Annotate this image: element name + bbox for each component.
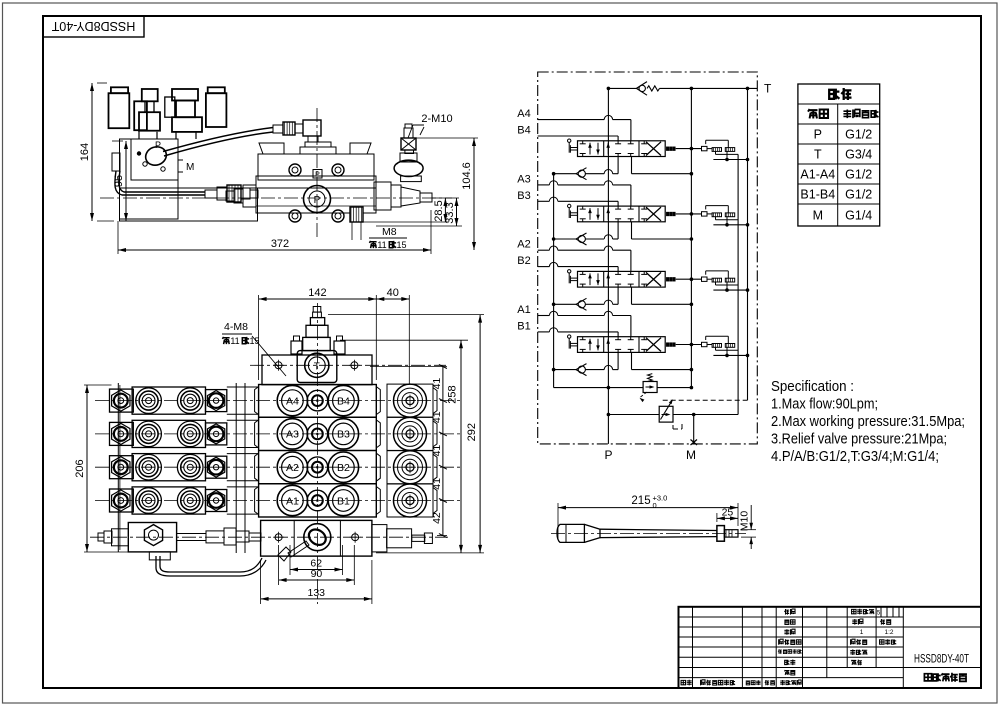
title block tiny chinese labels [784, 609, 789, 615]
valve 4/3 4 body [578, 141, 666, 157]
center bottom block [261, 520, 372, 556]
svg-text:B1: B1 [517, 320, 530, 332]
svg-text:41: 41 [431, 478, 443, 490]
left long plate verticals [117, 383, 119, 552]
dim 104.6 [416, 137, 478, 139]
valve internals 3 [589, 208, 591, 220]
svg-text:15: 15 [249, 336, 259, 346]
joystick X box [401, 138, 416, 150]
centerline side view [100, 197, 462, 199]
svg-text:A1-A4: A1-A4 [800, 168, 835, 182]
svg-text:B2: B2 [337, 462, 350, 474]
svg-text:3.Relief valve pressure:21Mpa;: 3.Relief valve pressure:21Mpa; [771, 431, 947, 448]
relief drain bus [737, 154, 739, 414]
valve internals 2 [589, 273, 591, 285]
P square mark [313, 170, 322, 179]
M plug X mark [691, 440, 698, 446]
svg-text:B3: B3 [517, 190, 530, 202]
header row: port (jie kou) / thread spec (luo wen gui ge) [808, 109, 817, 118]
svg-text:41: 41 [431, 411, 443, 423]
check valve 3 [613, 238, 619, 240]
lever knob [557, 524, 584, 542]
relief cluster 4 [702, 146, 708, 150]
part name: 4-spool multi-way valve (si lian duo lu fa) [924, 674, 931, 681]
valve to T wire 3 [676, 213, 702, 215]
lever actuator 2 [568, 270, 571, 273]
svg-text:206: 206 [74, 459, 86, 477]
dim 372 [117, 221, 119, 254]
port size table grid [798, 84, 880, 226]
svg-text:M10: M10 [739, 511, 751, 532]
dim 142 / 40 [258, 295, 260, 380]
svg-text:11: 11 [377, 240, 386, 250]
svg-text:M: M [186, 162, 194, 173]
section B2 work line [538, 266, 550, 268]
svg-text:A3: A3 [286, 429, 299, 441]
dim 206 [84, 384, 112, 386]
svg-text:2.Max working pressure:31.5Mpa: 2.Max working pressure:31.5Mpa; [771, 413, 965, 430]
svg-text:G3/4: G3/4 [845, 148, 872, 162]
dim 292 [328, 314, 484, 316]
dim 258 [340, 339, 468, 341]
work ports down 4 [617, 157, 619, 174]
svg-text:G1/2: G1/2 [845, 128, 872, 142]
spring cap 4 [667, 147, 669, 150]
title block columns [692, 607, 694, 688]
schematic dash-dot border [538, 72, 758, 444]
svg-text:41: 41 [431, 445, 443, 457]
svg-text:G1/4: G1/4 [845, 209, 872, 223]
small cells top right [880, 607, 882, 617]
lever actuator 1 [568, 335, 571, 338]
T return bus [690, 88, 692, 387]
top relief-check wire to T [608, 87, 637, 89]
svg-text:142: 142 [308, 287, 326, 299]
svg-text:1.Max flow:90Lpm;: 1.Max flow:90Lpm; [771, 396, 878, 413]
valve internals 4 [589, 143, 591, 155]
svg-text:Specification :: Specification : [771, 378, 854, 395]
table header: valve-body (fa ti) [829, 89, 839, 100]
svg-text:292: 292 [466, 423, 478, 441]
hose lower (pipe from module to valve) [115, 171, 205, 195]
svg-text:G1/2: G1/2 [845, 188, 872, 202]
svg-text:B2: B2 [517, 255, 530, 267]
relief cluster 2 [702, 277, 708, 281]
body side ears [255, 387, 259, 415]
left valve fittings [243, 185, 256, 207]
left collector line [553, 174, 555, 388]
side view left cover module [120, 139, 179, 219]
work ports down 3 [617, 222, 619, 239]
lever centerline [551, 532, 746, 534]
svg-text:4.P/A/B:G1/2,T:G3/4;M:G1/4;: 4.P/A/B:G1/2,T:G3/4;M:G1/4; [771, 448, 939, 465]
dim 28.5 33.3 [432, 197, 452, 199]
svg-text:2-M10: 2-M10 [421, 113, 452, 125]
svg-text:A4: A4 [517, 108, 530, 120]
svg-text:B3: B3 [337, 429, 350, 441]
svg-text:25: 25 [722, 506, 734, 518]
spring cap 2 [667, 278, 669, 281]
P supply bus [607, 88, 609, 444]
pilot drain dashed [663, 399, 748, 401]
ball joint assembly [394, 160, 423, 176]
solenoid valve cluster [111, 87, 128, 93]
pilot relief valve [608, 414, 659, 416]
relief cluster 3 [702, 212, 708, 216]
svg-text:A3: A3 [517, 173, 530, 185]
left attachment block rows [132, 387, 205, 414]
bottom unload wire [554, 387, 644, 389]
dim M10 [741, 529, 756, 531]
section A4 work line [538, 119, 605, 121]
dim 41x4 + 42 [370, 366, 447, 368]
M8 plug label [351, 222, 353, 240]
bottom plate assembly [128, 523, 176, 552]
cap bolt crosses [275, 362, 282, 369]
valve 4/3 1 body [578, 337, 666, 353]
dim 62 90 133 [289, 545, 291, 575]
svg-text:42: 42 [431, 512, 443, 524]
svg-text:372: 372 [271, 238, 289, 250]
section A3 work line [538, 184, 550, 186]
right pane tiny labels [852, 609, 856, 613]
hex nut [144, 525, 162, 546]
right adapters cone [374, 182, 391, 210]
title block outer [679, 607, 982, 688]
svg-text:P: P [315, 172, 320, 179]
right port flanges [387, 384, 433, 417]
svg-text:T: T [314, 361, 320, 372]
M drain line [693, 415, 695, 444]
svg-text:104.6: 104.6 [461, 162, 473, 190]
title block rows left [679, 616, 904, 618]
check valve 4 [613, 173, 619, 175]
svg-text:258: 258 [447, 385, 459, 403]
valve top flange stack [305, 142, 331, 147]
section A1 work line [538, 315, 550, 317]
top cap block [262, 355, 372, 385]
svg-text:M: M [686, 448, 696, 462]
section A2 work line [538, 249, 550, 251]
right bottom fittings [372, 525, 387, 552]
work ports down 2 [617, 287, 619, 304]
lever shaft [600, 529, 717, 530]
svg-text:A4: A4 [286, 395, 299, 407]
svg-text:B1-B4: B1-B4 [800, 188, 835, 202]
upper hose from pilot to elbow [163, 128, 273, 152]
svg-text:P: P [604, 448, 612, 462]
svg-text:HSSD8DY-40T: HSSD8DY-40T [914, 654, 969, 666]
svg-text:G1/2: G1/2 [845, 168, 872, 182]
main valve body (side) [258, 154, 374, 180]
svg-text:164: 164 [79, 143, 91, 161]
svg-text:B4: B4 [517, 125, 530, 137]
upper hose fitting & elbow [273, 125, 283, 133]
work port circles with labels [277, 385, 307, 415]
check valve 1 [613, 369, 619, 371]
dim 215 [557, 503, 559, 540]
dim 95 [112, 140, 123, 142]
section B1 work line [538, 331, 550, 333]
lever actuator 4 [568, 139, 571, 142]
svg-text:133: 133 [307, 587, 325, 599]
valve 4/3 2 body [578, 271, 666, 287]
svg-text:95: 95 [113, 175, 125, 187]
svg-text:M8: M8 [382, 226, 397, 238]
valve internals 1 [589, 339, 591, 351]
pilot P circle on module [143, 144, 169, 168]
relief outlet to M [673, 414, 738, 416]
lever actuator 3 [568, 204, 571, 207]
dim 25 [716, 513, 718, 522]
svg-text:B4: B4 [337, 395, 350, 407]
spring cap 3 [667, 212, 669, 215]
svg-text:40: 40 [387, 287, 399, 299]
svg-text:0: 0 [653, 501, 657, 510]
section B3 work line [538, 200, 550, 202]
svg-text:P: P [155, 140, 161, 150]
main body outline [259, 385, 377, 518]
front view centerlines [316, 303, 318, 604]
svg-text:A1: A1 [286, 495, 299, 507]
dim 164 [97, 82, 107, 84]
cap side nuts [291, 341, 302, 354]
top stem pyramid [313, 307, 321, 313]
check valve 2 [613, 303, 619, 305]
svg-text:A1: A1 [517, 304, 530, 316]
drawing number label box (rotated) [43, 16, 144, 37]
valve to T wire 4 [676, 148, 702, 150]
lever taper [584, 524, 600, 542]
svg-text:1: 1 [860, 629, 864, 636]
bottom connecting pipe [177, 533, 206, 535]
T port circle [305, 353, 329, 377]
direct relief valve [643, 382, 657, 393]
bottom hose [160, 556, 262, 572]
svg-text:41: 41 [431, 378, 443, 390]
svg-text:M: M [813, 209, 823, 223]
bottom row tiny labels [681, 680, 685, 684]
left small fitting [112, 529, 129, 546]
valve 4/3 3 body [578, 206, 666, 222]
raised center block [297, 351, 337, 383]
svg-text:T: T [764, 82, 772, 96]
valve to T wire 1 [676, 344, 702, 346]
svg-text:1:2: 1:2 [884, 629, 893, 636]
cap centerline [250, 364, 446, 366]
svg-text:33.3: 33.3 [444, 202, 456, 223]
valve to T wire 2 [676, 278, 702, 280]
svg-text:15: 15 [396, 240, 406, 250]
cluster-to-module stems [138, 131, 140, 139]
lever ball socket [304, 524, 331, 551]
lever rod lower [288, 541, 309, 557]
svg-text:B1: B1 [337, 495, 350, 507]
svg-text:A2: A2 [517, 239, 530, 251]
svg-text:11: 11 [230, 336, 239, 346]
base plate [120, 188, 258, 221]
top check-relief symbol [636, 82, 647, 89]
svg-text:215: 215 [631, 495, 650, 507]
bottom M8 plug [350, 207, 363, 222]
svg-text:90: 90 [311, 568, 323, 580]
main P port circle [304, 186, 331, 213]
svg-text:4-M8: 4-M8 [224, 321, 248, 333]
relief cluster 1 [702, 342, 708, 346]
svg-text:T: T [814, 148, 822, 162]
lever thread [724, 530, 738, 537]
spring cap 1 [667, 343, 669, 346]
body top ears [259, 143, 284, 154]
svg-text:A2: A2 [286, 462, 299, 474]
lever nut [717, 526, 725, 542]
svg-text:P: P [814, 128, 822, 142]
bottom cross bolts [275, 534, 282, 541]
lower hose fittings [205, 190, 217, 198]
section B4 work line [538, 135, 618, 137]
bolt circles side [289, 164, 301, 176]
right collector bus [747, 88, 749, 400]
work ports down 1 [617, 352, 619, 369]
svg-text:HSSD8DY-40T: HSSD8DY-40T [51, 19, 135, 33]
